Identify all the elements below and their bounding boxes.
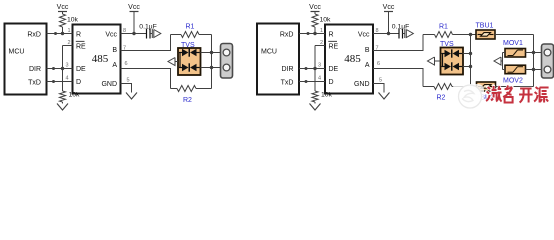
wire GND pin5 c2 (373, 84, 384, 92)
wire B pin7 to riser c2 (373, 35, 423, 51)
ground (cap) c1 (152, 29, 161, 38)
junction dot TVS bus top c2 (469, 33, 472, 36)
wire MOV ground stub c2 (501, 60, 503, 62)
wire resistor to RxD line c2 (314, 27, 316, 34)
wire bus to connector bottom c2 (534, 69, 543, 71)
wire right bus vertical c2 (533, 35, 535, 87)
svg-text:A: A (365, 62, 370, 69)
svg-text:6: 6 (377, 61, 380, 67)
wire RxD to R pin1 c2 (299, 33, 325, 35)
wire R1 to TBU1 c2 (453, 34, 477, 36)
svg-text:D: D (329, 79, 334, 86)
connector J1 (2-pin) c1 (221, 44, 233, 79)
svg-text:GND: GND (101, 81, 117, 88)
wire bus to connector bottom c1 (212, 67, 223, 69)
wire resistor to RxD line c1 (62, 27, 64, 34)
watermark text You Ming Kai Yuan (486, 86, 548, 103)
svg-text:R1: R1 (439, 23, 448, 30)
svg-text:RxD: RxD (27, 31, 41, 38)
MCU block c2 (257, 24, 299, 95)
RS-485 transceiver U1 (485) (73, 25, 121, 94)
wire RE-DE tie vertical c1 (62, 46, 64, 92)
svg-text:10k: 10k (67, 17, 79, 24)
junction dots c1 (52, 32, 64, 83)
resistor R1 c2 (435, 32, 453, 38)
svg-text:B: B (112, 47, 117, 54)
svg-text:MCU: MCU (261, 49, 277, 56)
Vcc supply symbol (pull-up) c1 (57, 4, 69, 12)
svg-text:10k: 10k (321, 92, 333, 99)
wire TVS ground stub c1 (175, 61, 178, 63)
wire RE pin2 stub c2 (315, 45, 325, 47)
svg-text:Vcc: Vcc (383, 4, 395, 11)
svg-text:1: 1 (320, 28, 323, 34)
wire bus to connector top c1 (212, 52, 223, 54)
TVS diode array c1 (178, 48, 201, 75)
svg-text:8: 8 (376, 28, 379, 34)
svg-text:1: 1 (68, 28, 71, 34)
svg-text:R1: R1 (186, 23, 195, 30)
wire Vcc to resistor c1 (62, 12, 64, 15)
svg-text:Vcc: Vcc (128, 4, 140, 11)
svg-text:GND: GND (354, 81, 370, 88)
wire R2 line left c2 (423, 86, 434, 88)
svg-text:DE: DE (329, 66, 339, 73)
wire MOV2 right lead c2 (526, 69, 534, 71)
resistor 10k pull-down c2 (312, 91, 318, 102)
node TVS top dot c2 (469, 52, 472, 55)
wire R1 line right c1 (199, 34, 212, 36)
svg-text:R2: R2 (183, 97, 192, 104)
junction dot TVS bus bottom c2 (469, 85, 472, 88)
wire Vcc bar down c2 (388, 12, 390, 34)
ground (pull-down) c1 (57, 102, 68, 110)
wire DIR to DE pin3 c1 (47, 68, 73, 70)
watermark logo circle (458, 85, 482, 109)
capacitor 0.1uF c2 (399, 29, 405, 39)
svg-text:RE: RE (76, 43, 86, 50)
pin numbers U2 (318, 28, 382, 84)
wire R1 line left c1 (171, 34, 182, 36)
wire R2 to TBU2 c2 (452, 86, 477, 88)
wire pin8 Vcc rail c1 (121, 33, 147, 35)
resistor 10k pull-up c2 (312, 14, 318, 27)
wire MOV2 left lead c2 (503, 69, 506, 71)
resistor R2 c2 (434, 84, 452, 90)
resistor 10k pull-down c1 (60, 91, 66, 102)
ground (GND pin) c2 (379, 91, 390, 99)
svg-text:TxD: TxD (28, 79, 41, 86)
wire TBU2 to bus c2 (496, 86, 534, 88)
RS-485 transceiver U2 (485) (325, 25, 373, 94)
TBU high-speed protector TBU1 c2 (476, 30, 495, 39)
wire GND pin5 c1 (121, 84, 132, 92)
wire pin8 Vcc rail c2 (373, 33, 399, 35)
wire TxD to D pin4 c2 (299, 81, 325, 83)
node B bus dot c2 (532, 51, 535, 54)
wire TVS bus vertical c2 (470, 35, 472, 87)
wire MOV1 right lead c2 (526, 52, 534, 54)
connector J2 (2-pin) c2 (542, 44, 554, 78)
wire A pin6 to dropper c2 (373, 69, 423, 87)
watermark background blob (452, 84, 484, 109)
wire TVS bottom lead c1 (201, 67, 212, 69)
varistor MOV2 c2 (505, 65, 526, 74)
wire TBU1 to bus c2 (495, 34, 534, 36)
wire MOV1 left lead c2 (503, 52, 506, 54)
TVS diode array c2 (441, 48, 464, 75)
wire TxD to D pin4 c1 (47, 81, 73, 83)
svg-text:MOV2: MOV2 (503, 77, 523, 84)
varistor MOV1 c2 (505, 49, 526, 58)
capacitor 0.1uF c1 (147, 29, 153, 39)
ground (GND pin) c1 (126, 91, 137, 99)
svg-text:MCU: MCU (9, 49, 25, 56)
svg-text:TBU1: TBU1 (476, 22, 494, 29)
svg-text:MOV1: MOV1 (503, 40, 523, 47)
resistor R1 c1 (181, 32, 199, 38)
resistor 10k pull-up c1 (60, 14, 66, 27)
node A bus dot c2 (532, 68, 535, 71)
svg-text:4: 4 (318, 76, 321, 82)
ground (MOV) c2 (494, 57, 501, 65)
wire bus to connector top c2 (534, 52, 543, 54)
junction dot Vcc c2 (387, 32, 390, 35)
wire R2 line left c1 (171, 88, 178, 90)
MCU block c1 (5, 24, 47, 95)
svg-text:TxD: TxD (281, 79, 294, 86)
node B bus dot c1 (210, 51, 213, 54)
junction dot Vcc c1 (132, 32, 135, 35)
wire right bus vertical c1 (211, 35, 213, 89)
svg-text:3: 3 (318, 63, 321, 69)
svg-text:10k: 10k (69, 92, 81, 99)
pin numbers U1 (66, 28, 130, 84)
svg-text:Vcc: Vcc (358, 31, 370, 38)
Vcc supply symbol (pin 8) c2 (383, 4, 395, 12)
svg-text:3: 3 (66, 63, 69, 69)
wire TVS ground stub c2 (435, 60, 441, 62)
svg-text:5: 5 (379, 78, 382, 84)
svg-text:Vcc: Vcc (105, 31, 117, 38)
svg-text:D: D (76, 79, 81, 86)
ground (TVS) c2 (428, 57, 435, 65)
svg-text:R: R (329, 31, 334, 38)
svg-text:DIR: DIR (29, 66, 41, 73)
node A bus dot c1 (210, 66, 213, 69)
wire TVS top lead c1 (201, 52, 212, 54)
ground (TVS) c1 (168, 58, 175, 66)
wire RxD to R pin1 c1 (47, 33, 73, 35)
wire R2 line right c1 (196, 88, 212, 90)
junction dots c2 (305, 32, 317, 83)
svg-text:6: 6 (125, 61, 128, 67)
wire A pin6 to dropper c1 (121, 69, 171, 89)
wire B pin7 to riser c1 (121, 35, 171, 51)
wire TVS bottom lead c2 (463, 66, 471, 68)
TBU high-speed protector TBU2 c2 (477, 82, 496, 91)
wire MOV left tie vertical c2 (502, 53, 504, 70)
svg-text:R: R (76, 31, 81, 38)
node TVS bottom dot c2 (469, 65, 472, 68)
ground (cap) c2 (405, 29, 414, 38)
svg-text:B: B (365, 47, 370, 54)
Vcc supply symbol (pin 8) c1 (128, 4, 140, 12)
svg-text:RE: RE (329, 43, 339, 50)
svg-text:485: 485 (344, 53, 361, 65)
svg-text:DIR: DIR (281, 66, 293, 73)
svg-text:5: 5 (127, 78, 130, 84)
Vcc supply symbol (pull-up) c2 (309, 4, 321, 12)
wire RE pin2 stub c1 (63, 45, 73, 47)
svg-text:A: A (112, 62, 117, 69)
svg-text:Vcc: Vcc (309, 4, 321, 11)
svg-text:485: 485 (92, 53, 109, 65)
wire Vcc bar down c1 (133, 12, 135, 34)
ground (pull-down) c2 (310, 102, 321, 110)
wire RE-DE tie vertical c2 (314, 46, 316, 92)
svg-text:DE: DE (76, 66, 86, 73)
svg-text:RxD: RxD (280, 31, 294, 38)
wire R1 line left c2 (423, 34, 435, 36)
svg-text:Vcc: Vcc (57, 4, 69, 11)
svg-text:8: 8 (123, 28, 126, 34)
svg-text:4: 4 (66, 76, 69, 82)
wire Vcc to resistor c2 (314, 12, 316, 15)
svg-text:10k: 10k (320, 17, 332, 24)
svg-text:R2: R2 (437, 94, 446, 101)
wire TVS top lead c2 (463, 53, 471, 55)
resistor R2 c1 (177, 86, 196, 92)
wire DIR to DE pin3 c2 (299, 68, 325, 70)
